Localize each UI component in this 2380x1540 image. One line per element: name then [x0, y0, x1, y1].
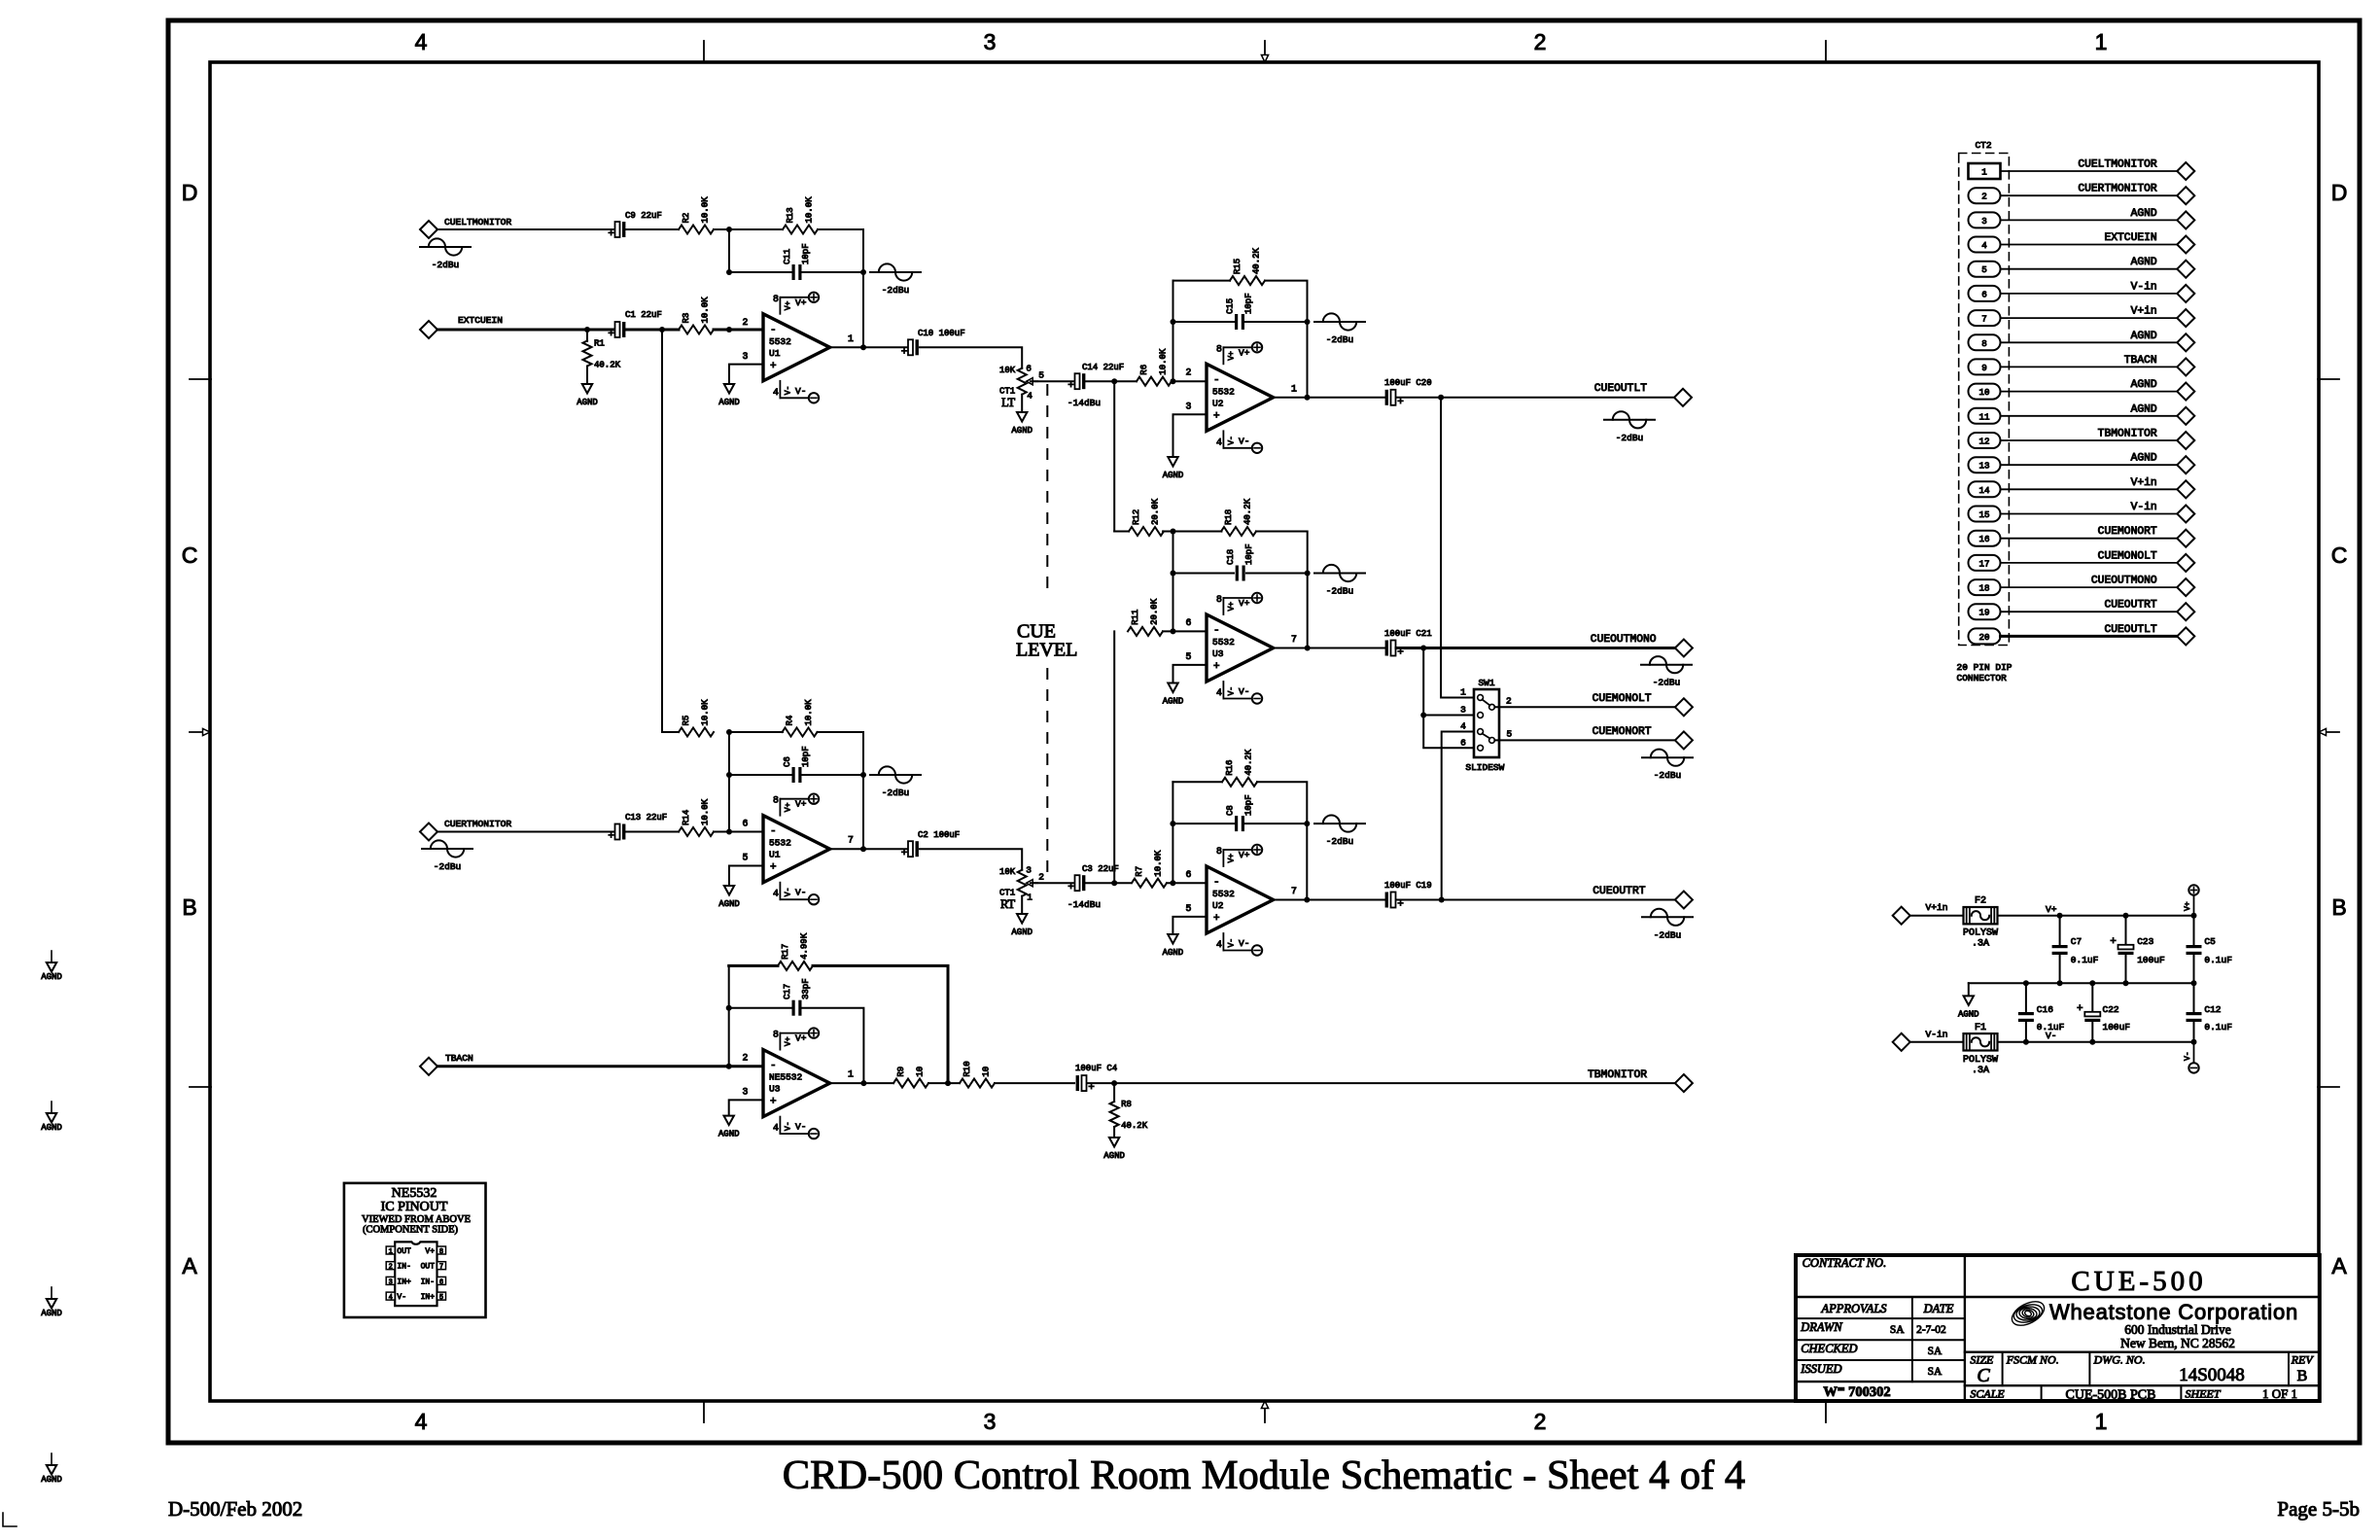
svg-text:AGND: AGND [718, 899, 740, 909]
svg-text:R18: R18 [1224, 509, 1234, 525]
terminal CUEOUTRT [2104, 600, 2194, 621]
wire U3 output [1274, 647, 1384, 649]
svg-text:CHECKED: CHECKED [1801, 1342, 1857, 1355]
svg-text:2: 2 [743, 1053, 749, 1064]
svg-text:AGND: AGND [718, 1130, 740, 1139]
svg-text:B: B [2331, 894, 2346, 920]
svg-text:+: + [901, 346, 908, 358]
op-amp U2 second half 5532 [1186, 845, 1298, 956]
svg-text:V+: V+ [425, 1247, 435, 1256]
svg-text:V-in: V-in [2131, 281, 2157, 293]
wire CUEOUTRT bus up to SW1 pin4 [1442, 732, 1477, 900]
wire C9 to R2 [626, 228, 679, 230]
node U1b output [860, 846, 866, 852]
NE5532 IC pinout diagram [344, 1183, 486, 1317]
resistor R10 10 [960, 1061, 995, 1087]
svg-text:C17: C17 [783, 984, 792, 999]
svg-text:100uF C20: 100uF C20 [1384, 378, 1432, 388]
svg-text:D-500/Feb 2002: D-500/Feb 2002 [168, 1497, 302, 1521]
svg-text:RT: RT [1000, 897, 1016, 911]
wire CT2 pin 15 net V-in [2001, 513, 2178, 515]
svg-text:9: 9 [1981, 363, 1987, 373]
capacitor C10 100uF [901, 329, 965, 358]
terminal AGND [2131, 379, 2195, 401]
svg-text:40.2K: 40.2K [1244, 749, 1254, 776]
svg-text:3: 3 [1186, 401, 1192, 411]
resistor R12 20.0K [1114, 498, 1164, 536]
level -14dBu label [1067, 398, 1101, 408]
wire C16 bottom [2025, 1023, 2027, 1042]
connector CT2 pin 7 [1969, 310, 2001, 326]
svg-text:C7: C7 [2071, 936, 2082, 947]
svg-text:POLYSW: POLYSW [1963, 928, 1998, 939]
wire CT2 pin 7 net V+in [2001, 317, 2178, 319]
node R2/R13 junction [726, 227, 732, 232]
connector CT2 caption [1957, 662, 2012, 683]
wire C7 bottom [2059, 956, 2061, 983]
svg-text:4: 4 [1981, 240, 1987, 251]
svg-text:CRD-500 Control Room Module Sc: CRD-500 Control Room Module Schematic - … [783, 1452, 1745, 1498]
svg-text:APPROVALS: APPROVALS [1820, 1302, 1887, 1315]
wire V+in to F2 [1910, 915, 1963, 917]
svg-text:3: 3 [743, 351, 749, 362]
svg-text:C11: C11 [783, 249, 792, 264]
terminal CUERTMONITOR [2078, 184, 2194, 205]
resistor R16 40.2K [1172, 749, 1257, 787]
svg-text:TBACN: TBACN [2124, 355, 2157, 367]
wire R15 rail [1173, 280, 1231, 282]
node mono feed tap [659, 327, 665, 332]
sheet title text [783, 1452, 1745, 1498]
svg-text:6: 6 [439, 1278, 443, 1286]
svg-text:R16: R16 [1225, 760, 1235, 776]
node U1 pin6 [726, 829, 732, 835]
connector CT2 pin 10 [1969, 384, 2001, 400]
svg-text:V+in: V+in [2131, 477, 2157, 489]
wire U3 pin5 to ground [1173, 665, 1207, 683]
svg-text:V-: V- [2184, 1051, 2192, 1061]
ground AGND margin symbol 1 [41, 951, 62, 982]
svg-text:V+: V+ [1239, 598, 1250, 609]
svg-text:10.0K: 10.0K [804, 699, 814, 726]
svg-text:3: 3 [743, 1087, 749, 1098]
svg-text:7: 7 [1291, 886, 1297, 896]
svg-text:C: C [2331, 542, 2348, 568]
svg-text:-2dBu: -2dBu [1653, 678, 1681, 688]
svg-text:+: + [2110, 936, 2117, 948]
svg-text:5: 5 [1186, 651, 1192, 662]
wire CT2 pin 19 net CUEOUTRT [2001, 611, 2178, 612]
svg-text:5: 5 [1506, 729, 1512, 740]
level -14dBu label [1067, 899, 1101, 910]
wire C22 top [2091, 983, 2093, 1011]
svg-text:4: 4 [773, 889, 779, 899]
wire C16 top [2025, 983, 2027, 1011]
wire F1 to V- rail [1998, 1041, 2194, 1043]
svg-text:R14: R14 [682, 810, 691, 825]
svg-text:8: 8 [773, 1030, 779, 1040]
wire U1a output [830, 346, 907, 348]
svg-text:5: 5 [1038, 370, 1044, 381]
svg-text:10.0K: 10.0K [1159, 348, 1169, 375]
svg-text:V-in: V-in [1926, 1029, 1948, 1039]
capacitor C7 0.1uF [2052, 936, 2099, 965]
node R9/R10 junction [945, 1080, 951, 1086]
svg-text:TBACN: TBACN [445, 1053, 473, 1064]
svg-text:R17: R17 [781, 944, 790, 960]
svg-text:V+: V+ [784, 300, 792, 310]
wire R17 rail [729, 964, 778, 967]
resistor R13 10.0K [783, 196, 818, 234]
title block texts [1800, 1256, 2314, 1403]
svg-text:W⁼ 700302: W⁼ 700302 [1823, 1384, 1890, 1400]
wire R9 to R10 [928, 1082, 960, 1084]
wire U2a output [1274, 397, 1384, 399]
svg-text:-2dBu: -2dBu [882, 285, 910, 296]
svg-text:4: 4 [1216, 687, 1222, 698]
svg-text:AGND: AGND [1011, 426, 1032, 436]
node CUEOUTMONO to SW1 tap [1420, 646, 1426, 651]
svg-text:7: 7 [1291, 634, 1297, 645]
svg-text:4: 4 [415, 1409, 428, 1434]
svg-text:15: 15 [1978, 509, 1989, 520]
wire CT2 pin 18 net CUEOUTMONO [2001, 586, 2178, 588]
svg-text:3: 3 [1026, 865, 1032, 876]
svg-text:V-: V- [1227, 686, 1236, 696]
wire pin6 branch [1172, 532, 1174, 632]
CUE LEVEL label [1016, 620, 1077, 660]
svg-text:10K: 10K [999, 366, 1016, 375]
wire C6 rail left [729, 774, 791, 776]
svg-text:+: + [1067, 882, 1074, 893]
svg-text:600 Industrial Drive: 600 Industrial Drive [2124, 1322, 2230, 1337]
svg-text:DWG. NO.: DWG. NO. [2093, 1353, 2146, 1367]
svg-text:0.1uF: 0.1uF [2071, 955, 2099, 965]
wire C23 bottom [2125, 956, 2127, 983]
connector CT2 pin 15 [1969, 507, 2001, 522]
svg-text:5532: 5532 [1212, 386, 1235, 397]
svg-text:2: 2 [1981, 192, 1987, 202]
svg-text:7: 7 [439, 1264, 443, 1272]
svg-text:U2: U2 [1212, 900, 1224, 911]
ground AGND margin symbol 3 [41, 1287, 62, 1318]
power V+ bubble [2184, 885, 2199, 915]
node AGND rail C22 tap [2089, 980, 2095, 986]
svg-text:20.0K: 20.0K [1150, 598, 1160, 625]
wire R13 to feedback corner [818, 229, 863, 272]
svg-text:AGND: AGND [2131, 453, 2157, 465]
fuse F1 POLYSW .3A [1963, 1023, 1998, 1076]
switch SW1 SLIDESW [1460, 678, 1512, 773]
power V- bubble [2184, 1042, 2199, 1073]
title block [1796, 1255, 2320, 1401]
ground AGND below R8 [1103, 1127, 1125, 1161]
svg-text:-: - [770, 1061, 777, 1072]
resistor R17 4.99K [778, 932, 813, 970]
connector CT2 pin 4 [1969, 237, 2001, 253]
svg-text:CT2: CT2 [1975, 140, 1991, 151]
svg-text:4: 4 [1460, 721, 1466, 732]
wire C4 to TBMONITOR [1087, 1082, 1675, 1084]
svg-text:LEVEL: LEVEL [1016, 639, 1077, 660]
svg-text:V-: V- [1227, 938, 1236, 948]
svg-text:40.2K: 40.2K [1121, 1121, 1148, 1131]
wire V-in to F1 [1910, 1041, 1963, 1043]
wire CUERTMONITOR to C13 [437, 831, 614, 833]
wire pin2 branch up to feedback [728, 965, 730, 1066]
node AGND rail C16 tap [2023, 980, 2029, 986]
wire down to R12 [1113, 381, 1115, 531]
svg-text:AGND: AGND [2131, 257, 2157, 268]
svg-text:OUT: OUT [421, 1263, 436, 1272]
svg-text:V+: V+ [2184, 901, 2192, 911]
svg-text:AGND: AGND [1163, 471, 1184, 480]
svg-text:2: 2 [743, 317, 749, 328]
svg-text:C8: C8 [1226, 805, 1236, 816]
wire CT2 pin 17 net CUEMONOLT [2001, 562, 2178, 564]
svg-text:C1 22uF: C1 22uF [625, 310, 662, 320]
capacitor C16 0.1uF [2018, 1004, 2065, 1032]
wire CT1-LT wiper to C14 [1031, 380, 1073, 382]
node mono tap after C14 [1111, 378, 1117, 384]
svg-text:19: 19 [1978, 608, 1989, 618]
svg-text:ISSUED: ISSUED [1800, 1362, 1841, 1376]
connector CT2 pin 12 [1969, 433, 2001, 448]
svg-text:4: 4 [773, 1123, 779, 1134]
svg-text:CUELTMONITOR: CUELTMONITOR [444, 217, 511, 227]
svg-text:C18: C18 [1226, 549, 1236, 565]
svg-text:10pF: 10pF [801, 746, 811, 767]
svg-text:+: + [1213, 913, 1220, 925]
svg-text:10pF: 10pF [1244, 543, 1254, 565]
svg-text:-: - [1213, 625, 1220, 637]
resistor R7 10.0K [1132, 850, 1167, 888]
wire CT1-RT wiper to C3 [1031, 882, 1073, 884]
svg-text:CONNECTOR: CONNECTOR [1957, 673, 2008, 683]
svg-text:V-: V- [1239, 436, 1249, 446]
svg-text:+: + [608, 831, 614, 843]
svg-text:100uF C21: 100uF C21 [1384, 629, 1432, 639]
wire R11 to U3 pin6 [1163, 630, 1207, 632]
signal level -2dBu marker [1642, 750, 1693, 782]
connector CT2 pin 20 [1969, 628, 2001, 644]
svg-text:1: 1 [389, 1248, 393, 1256]
wire up to R11 [1113, 631, 1115, 883]
svg-text:CUERTMONITOR: CUERTMONITOR [2078, 184, 2157, 195]
node V+ C23 tap [2123, 913, 2129, 919]
svg-text:C12: C12 [2204, 1004, 2221, 1015]
svg-text:NE5532: NE5532 [769, 1072, 803, 1083]
svg-text:C9 22uF: C9 22uF [625, 211, 662, 221]
svg-text:33pF: 33pF [801, 978, 811, 999]
terminal CUEMONORT [1592, 726, 1693, 749]
svg-text:(COMPONENT SIDE): (COMPONENT SIDE) [363, 1225, 459, 1236]
wire C7 top [2059, 916, 2061, 944]
svg-text:R13: R13 [786, 207, 795, 223]
svg-text:+: + [901, 848, 908, 859]
wire C10 to CT1-LT [920, 347, 1022, 367]
terminal AGND [2131, 208, 2195, 229]
svg-text:CT1: CT1 [999, 889, 1015, 898]
svg-text:R15: R15 [1233, 259, 1242, 274]
svg-text:-: - [770, 325, 777, 336]
svg-text:2-7-02: 2-7-02 [1916, 1324, 1946, 1336]
svg-text:B: B [182, 894, 196, 920]
svg-text:C14 22uF: C14 22uF [1082, 363, 1124, 372]
svg-text:8: 8 [773, 795, 779, 806]
wire R18 to right corner [1256, 532, 1308, 574]
resistor R4 10.0K [783, 699, 818, 737]
wire C5 bottom [2193, 956, 2195, 983]
connector CT2 pin 2 [1969, 188, 2001, 203]
svg-text:10.0K: 10.0K [1154, 850, 1164, 877]
svg-text:-14dBu: -14dBu [1067, 398, 1101, 408]
svg-text:1 OF 1: 1 OF 1 [2262, 1386, 2297, 1401]
terminal V+in [1893, 902, 1948, 925]
svg-text:AGND: AGND [2131, 331, 2157, 342]
doc number text [168, 1497, 302, 1521]
capacitor C22 100uF [2077, 1003, 2130, 1032]
svg-text:10.0K: 10.0K [805, 196, 815, 224]
node U2b output [1304, 897, 1310, 903]
signal level -2dBu marker [1641, 656, 1692, 688]
wire U1 pin5 to ground [729, 866, 763, 887]
svg-text:CUERTMONITOR: CUERTMONITOR [444, 819, 511, 829]
svg-text:EXTCUEIN: EXTCUEIN [2104, 232, 2156, 244]
svg-text:5: 5 [439, 1294, 443, 1302]
svg-text:-2dBu: -2dBu [1326, 836, 1354, 847]
terminal TBACN [420, 1053, 473, 1075]
svg-text:V-: V- [795, 888, 806, 898]
svg-text:+: + [608, 228, 614, 240]
resistor R11 20.0K [1128, 598, 1163, 636]
potentiometer CT1 LT 10K [999, 364, 1044, 410]
connector CT2 pin 6 [1969, 286, 2001, 301]
wire R10 to C4 [995, 1082, 1074, 1084]
svg-text:SA: SA [1890, 1324, 1905, 1336]
ground AGND margin symbol 4 [41, 1453, 62, 1485]
terminal V-in [1893, 1029, 1948, 1050]
svg-text:18: 18 [1978, 583, 1989, 594]
svg-text:100uF C4: 100uF C4 [1075, 1064, 1117, 1073]
wire U1 pin3 to ground [729, 365, 763, 384]
wire U2 pin3 to ground [1173, 414, 1207, 457]
svg-text:CUEMONOLT: CUEMONOLT [1592, 693, 1652, 705]
svg-text:SCALE: SCALE [1970, 1387, 2005, 1401]
svg-text:V+in: V+in [1926, 902, 1948, 913]
wire C8 rail left [1172, 822, 1234, 824]
svg-text:2: 2 [1534, 1409, 1547, 1434]
svg-text:-: - [770, 826, 777, 838]
connector CT2 pin 16 [1969, 531, 2001, 546]
svg-text:5532: 5532 [769, 336, 791, 347]
svg-text:DRAWN: DRAWN [1800, 1320, 1842, 1334]
svg-text:NE5532: NE5532 [392, 1186, 437, 1201]
ground AGND below CT1-LT [1011, 395, 1032, 436]
wire analog ground rail [1969, 982, 2194, 984]
capacitor C1 22uF [608, 310, 662, 340]
capacitor C8 10pF [1226, 794, 1254, 831]
svg-text:10.0K: 10.0K [701, 196, 711, 224]
svg-text:5532: 5532 [1212, 889, 1235, 899]
wire C20 to CUEOUTLT [1396, 397, 1675, 399]
svg-text:Wheatstone Corporation: Wheatstone Corporation [2049, 1300, 2298, 1324]
svg-text:New Bern, NC 28562: New Bern, NC 28562 [2120, 1336, 2235, 1350]
svg-text:0.1uF: 0.1uF [2204, 955, 2232, 965]
op-amp U1 first half 5532 [743, 293, 855, 403]
svg-text:16: 16 [1978, 534, 1989, 544]
wire R5 junction down [728, 732, 730, 832]
svg-text:D: D [182, 180, 198, 205]
wire U2b output [1274, 899, 1384, 901]
capacitor C5 0.1uF [2187, 936, 2233, 965]
svg-text:CONTRACT NO.: CONTRACT NO. [1802, 1256, 1887, 1270]
svg-text:10.0K: 10.0K [701, 297, 711, 324]
ground AGND at U3 pin3 [718, 1116, 740, 1139]
op-amp U1 second half 5532 [743, 794, 855, 905]
capacitor C9 22uF [608, 211, 662, 240]
svg-text:R9: R9 [896, 1067, 906, 1077]
terminal CUEOUTMONO [1591, 634, 1693, 657]
signal level -2dBu marker [870, 263, 921, 296]
svg-text:+: + [770, 361, 777, 372]
svg-text:LT: LT [1001, 396, 1015, 409]
svg-text:TBMONITOR: TBMONITOR [1588, 1069, 1647, 1081]
svg-text:AGND: AGND [1103, 1151, 1125, 1161]
terminal V-in [2131, 281, 2195, 302]
wire EXTCUEIN to C1 [437, 329, 614, 332]
svg-text:C10 100uF: C10 100uF [918, 329, 965, 338]
svg-text:V-: V- [784, 888, 792, 897]
wire feedback to U3 output [1307, 574, 1309, 648]
svg-text:V-: V- [1239, 938, 1249, 949]
wire C15 rail right [1245, 321, 1308, 323]
capacitor C23 100uF [2110, 936, 2165, 965]
wire R5 feed from EXTCUEIN [662, 731, 679, 733]
net label V- [2046, 1031, 2057, 1041]
ground AGND margin symbol 2 [41, 1102, 62, 1133]
svg-text:V+: V+ [784, 1036, 792, 1046]
node AGND rail C23 tap [2123, 980, 2129, 986]
svg-text:CUE-500B PCB: CUE-500B PCB [2066, 1388, 2156, 1403]
svg-text:8: 8 [773, 294, 779, 304]
node R1 tap [584, 327, 590, 332]
svg-text:4: 4 [1216, 939, 1222, 950]
wire C1 to R3 [626, 329, 679, 332]
signal level -2dBu marker [1604, 411, 1655, 443]
svg-text:SHEET: SHEET [2186, 1387, 2222, 1401]
svg-text:8: 8 [1216, 594, 1222, 605]
wire R14 to U1 pin6 [714, 831, 763, 833]
wire TBACN to U3 pin2 [437, 1065, 763, 1067]
svg-text:SA: SA [1928, 1366, 1942, 1378]
svg-text:C22: C22 [2103, 1004, 2119, 1015]
svg-text:1: 1 [1460, 687, 1466, 698]
wire CT2 pin 9 net TBACN [2001, 366, 2178, 367]
svg-text:6: 6 [1186, 617, 1192, 628]
terminal CUEMONOLT [2098, 550, 2195, 572]
capacitor C3 22uF [1067, 864, 1119, 893]
svg-text:V-: V- [795, 1122, 806, 1133]
svg-text:R2: R2 [682, 213, 691, 224]
svg-text:5532: 5532 [769, 838, 791, 849]
capacitor C21 100uF [1384, 629, 1432, 659]
wire R17 to right corner [813, 965, 948, 1083]
svg-text:1: 1 [1027, 892, 1032, 903]
connector CT2 pin 11 [1969, 408, 2001, 424]
svg-text:12: 12 [1978, 437, 1989, 447]
svg-text:V+: V+ [2046, 904, 2057, 915]
